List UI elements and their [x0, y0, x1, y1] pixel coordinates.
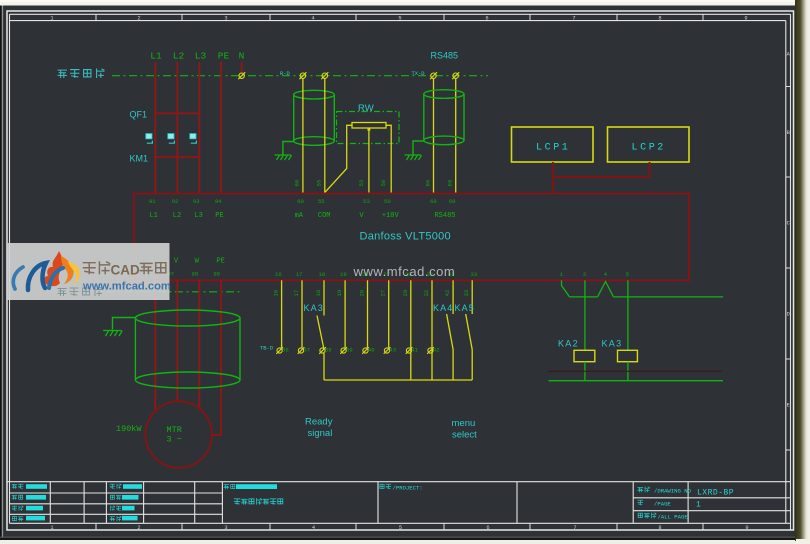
- svg-text:2: 2: [137, 525, 140, 531]
- svg-text:8: 8: [658, 16, 661, 22]
- window edge: left dark column and light line: [0, 6, 2, 541]
- wire numbers at circles: [282, 347, 440, 354]
- svg-text:17: 17: [296, 271, 303, 278]
- svg-text:L1: L1: [150, 51, 162, 62]
- terminal 60 at boundary: [299, 72, 306, 79]
- top ruler ticks: [96, 14, 703, 20]
- relay coil KA2: [574, 350, 595, 361]
- wire motor PE: [212, 280, 221, 435]
- wire ctrl 18 with KA3 contact: [317, 280, 324, 380]
- wire choke shield to ground: [113, 318, 137, 330]
- watermark text 免费CAD数据网: [83, 262, 109, 274]
- wire RS485 A (68): [433, 79, 435, 193]
- svg-text:91: 91: [149, 198, 156, 205]
- svg-text:C: C: [787, 221, 790, 227]
- svg-text:/DRAWING NO: /DRAWING NO: [654, 488, 692, 495]
- svg-text:L2: L2: [173, 51, 185, 62]
- svg-text:55: 55: [318, 198, 325, 205]
- wire L1 phase: [154, 62, 156, 194]
- wire T1 shield to ground: [283, 142, 294, 155]
- svg-text:MTR: MTR: [167, 425, 182, 435]
- svg-text:19: 19: [336, 290, 343, 297]
- svg-text:L1: L1: [149, 212, 157, 220]
- svg-text:www.mfcad.com: www.mfcad.com: [353, 264, 456, 279]
- svg-text:33: 33: [471, 271, 478, 278]
- wire mA signal (60): [302, 79, 304, 193]
- svg-text:CAD: CAD: [111, 263, 140, 278]
- svg-text:6: 6: [485, 16, 488, 22]
- title block: left column row labels (col1): [12, 484, 23, 521]
- svg-text:16: 16: [275, 271, 282, 278]
- title block: project cell label: [380, 484, 391, 489]
- svg-text:+10V: +10V: [382, 212, 400, 220]
- svg-text:40: 40: [368, 347, 375, 354]
- svg-text:16: 16: [273, 290, 280, 297]
- svg-text:signal: signal: [308, 428, 333, 439]
- wire ctrl 17: [301, 280, 303, 348]
- relay coil KA3: [618, 350, 638, 361]
- ground G1: [275, 155, 292, 160]
- drive VLT5000 enclosure: [134, 194, 689, 281]
- svg-text:/PAGE: /PAGE: [654, 500, 671, 507]
- svg-text:5: 5: [399, 525, 402, 531]
- wire device boundary dashed line (lower): [107, 291, 240, 293]
- svg-text:LCP2: LCP2: [632, 143, 666, 154]
- terminal on N at boundary: [238, 72, 245, 79]
- svg-text:69: 69: [449, 198, 456, 205]
- wire ctrl 27: [388, 280, 390, 348]
- svg-text:60: 60: [297, 198, 304, 205]
- wire RW right end to terminal 50: [386, 125, 391, 192]
- svg-text:18: 18: [315, 290, 322, 297]
- svg-text:19: 19: [340, 271, 347, 278]
- svg-text:55: 55: [316, 180, 323, 187]
- wire LCP2 drop: [649, 162, 651, 177]
- svg-text:QF1: QF1: [130, 110, 148, 120]
- svg-text:PE: PE: [215, 212, 223, 220]
- svg-text:select: select: [452, 430, 477, 441]
- potentiometer RW wiper dot: [368, 128, 371, 131]
- svg-text:43: 43: [389, 347, 396, 354]
- wire RS485 B (69): [455, 79, 457, 193]
- terminal 69 at boundary: [452, 72, 459, 79]
- wire relay contact 1 (blade to rail): [562, 280, 570, 297]
- wire terminal 2 to coil KA2: [584, 280, 586, 350]
- svg-text:38: 38: [325, 347, 332, 354]
- svg-text:www.mfcad.com: www.mfcad.com: [82, 281, 171, 293]
- top ruler numbers: [50, 16, 747, 22]
- wire coil KA2 to rail: [584, 362, 586, 381]
- svg-text:2: 2: [583, 271, 586, 278]
- wire ctrl 42 with KA4 contact: [447, 280, 454, 380]
- wire COM (55): [324, 79, 326, 193]
- svg-text:R-D: R-D: [280, 71, 290, 77]
- bottom ruler ticks: [96, 523, 703, 530]
- wire terminal 5 to coil KA3: [627, 280, 629, 350]
- svg-text:menu: menu: [452, 418, 476, 429]
- ground G3: [103, 331, 122, 337]
- wire RW wiper to terminal 53: [368, 131, 370, 193]
- wire ctrl 19: [344, 280, 346, 348]
- svg-text:42: 42: [433, 347, 440, 354]
- terminal 68 at boundary: [430, 72, 437, 79]
- svg-text:33: 33: [463, 290, 470, 297]
- wire motor V: [176, 280, 178, 402]
- svg-text:42: 42: [444, 290, 451, 297]
- wire ctrl 20: [367, 280, 369, 348]
- current transformer T1 (cylinder): [294, 90, 335, 145]
- svg-text:4: 4: [311, 16, 314, 22]
- wire ctrl 33 with KA5 contact: [466, 280, 473, 380]
- svg-text:27: 27: [380, 290, 387, 297]
- title block: second column cyan bars: [122, 484, 142, 520]
- bottom ruler numbers: [50, 525, 748, 531]
- wire motor U: [154, 280, 156, 411]
- svg-text:RW: RW: [358, 103, 374, 114]
- window edge: top cream strip: [0, 0, 799, 6]
- wire LCP bus horizontal: [553, 176, 650, 178]
- svg-text:/ALL PAGE: /ALL PAGE: [658, 514, 689, 521]
- svg-text:/PROJECT:: /PROJECT:: [393, 484, 423, 491]
- svg-text:5: 5: [626, 271, 629, 278]
- signal isolator T2 (cylinder): [424, 90, 464, 145]
- title block: all page row: [638, 513, 656, 518]
- svg-text:N: N: [239, 51, 245, 62]
- svg-text:39: 39: [346, 347, 353, 354]
- breaker QF1 linkage bar: [155, 112, 199, 114]
- contactor KM1 linkage bar: [155, 156, 199, 158]
- svg-text:98: 98: [192, 270, 199, 277]
- watermark logo flame: [44, 251, 79, 286]
- svg-text:L2: L2: [173, 212, 181, 220]
- right ruler letters: [787, 52, 791, 409]
- svg-text:32: 32: [423, 290, 430, 297]
- wire LCP1 drop: [552, 162, 554, 194]
- ground G2: [405, 155, 422, 160]
- svg-text:KA5: KA5: [455, 303, 475, 313]
- svg-text:3 ~: 3 ~: [167, 435, 182, 445]
- svg-text:5: 5: [398, 16, 401, 22]
- svg-text:41: 41: [411, 347, 418, 354]
- boundary label 设备分界 (lower, visible over watermark): [58, 288, 102, 296]
- svg-text:1: 1: [696, 501, 701, 510]
- wire relay rail lower: [549, 380, 724, 382]
- wire relay rail upper: [570, 296, 724, 298]
- svg-text:PE: PE: [216, 258, 224, 266]
- window edge: bottom lines and cream page below: [0, 537, 796, 538]
- svg-text:69: 69: [447, 180, 454, 187]
- svg-text:COM: COM: [318, 212, 331, 220]
- svg-text:3: 3: [224, 525, 227, 531]
- title block: second label column (col4) glyphs: [110, 484, 121, 521]
- rotated wire numbers for control wires: [273, 289, 471, 296]
- svg-text:E: E: [787, 403, 790, 409]
- title block: drawing title (Chinese): [234, 499, 283, 505]
- title block grid lines: [7, 482, 791, 524]
- svg-text:L3: L3: [194, 212, 202, 220]
- svg-text:D: D: [787, 312, 790, 318]
- svg-text:53: 53: [363, 198, 370, 205]
- svg-text:RS485: RS485: [431, 51, 459, 61]
- svg-text:7: 7: [572, 16, 575, 22]
- svg-text:53: 53: [358, 180, 365, 187]
- svg-text:KA4: KA4: [433, 303, 453, 313]
- potentiometer RW dash-dot enclosure: [337, 112, 400, 144]
- svg-text:99: 99: [213, 270, 220, 277]
- svg-text:RS485: RS485: [434, 212, 455, 220]
- wire coil KA3 to rail: [627, 362, 629, 381]
- svg-text:2: 2: [137, 16, 140, 22]
- wire ctrl 29: [410, 280, 412, 380]
- title block: left column cyan bars (col1): [26, 484, 47, 520]
- wire T2 shield to ground: [413, 141, 424, 155]
- boundary label 设备分界 (lower, under watermark): [58, 288, 102, 296]
- svg-text:L3: L3: [195, 51, 207, 62]
- svg-text:TB-D: TB-D: [260, 346, 273, 352]
- svg-text:29: 29: [402, 290, 409, 297]
- wire L2 phase: [176, 62, 178, 194]
- title block: drawing no row: [638, 487, 650, 492]
- svg-text:9: 9: [745, 525, 748, 531]
- svg-text:KA2: KA2: [558, 339, 579, 349]
- svg-text:KA3: KA3: [602, 339, 623, 349]
- right ruler ticks: [786, 87, 791, 451]
- terminal circles row with wire numbers: [276, 347, 434, 354]
- watermark logo blue swoosh: [13, 263, 63, 290]
- wire L3 phase: [198, 62, 200, 194]
- wire RW left end to terminal 55: [325, 125, 352, 192]
- title block: drawing-type cell label and bar: [224, 484, 235, 489]
- motor MTR circle: [146, 401, 212, 467]
- wire relay contact 4 (tent): [598, 282, 614, 297]
- watermark panel (semi-transparent): [7, 243, 170, 300]
- panel LCP2 box: [608, 127, 690, 162]
- potentiometer RW body: [352, 123, 386, 129]
- wire motor W: [198, 280, 200, 408]
- svg-text:37: 37: [303, 347, 310, 354]
- breaker QF1 pole marks (cyan): [146, 134, 197, 144]
- svg-text:LCP1: LCP1: [536, 143, 570, 154]
- wire ctrl 32: [431, 280, 433, 380]
- svg-text:6: 6: [486, 525, 489, 531]
- svg-text:93: 93: [193, 198, 200, 205]
- svg-text:94: 94: [215, 198, 222, 205]
- svg-text:PE: PE: [218, 51, 230, 62]
- svg-text:60: 60: [294, 179, 301, 186]
- faint residual line: [549, 370, 723, 372]
- svg-text:36: 36: [282, 347, 289, 354]
- svg-text:7: 7: [573, 525, 576, 531]
- panel LCP1 box: [512, 127, 594, 162]
- svg-text:190kW: 190kW: [116, 424, 142, 434]
- terminal 55 at boundary: [321, 72, 328, 79]
- svg-text:1: 1: [50, 16, 53, 22]
- svg-text:3: 3: [224, 16, 227, 22]
- svg-text:4: 4: [312, 525, 315, 531]
- svg-text:18: 18: [319, 271, 326, 278]
- svg-text:50: 50: [384, 198, 391, 205]
- svg-text:68: 68: [425, 180, 432, 187]
- wire device boundary dashed line (top): [112, 75, 488, 77]
- svg-text:mA: mA: [295, 212, 304, 220]
- svg-text:Danfoss VLT5000: Danfoss VLT5000: [360, 231, 451, 243]
- title block: page row: [638, 500, 643, 505]
- svg-text:KM1: KM1: [130, 154, 149, 164]
- svg-text:8: 8: [658, 525, 661, 531]
- svg-text:LXRD-BP: LXRD-BP: [697, 488, 734, 497]
- svg-text:20: 20: [359, 289, 366, 296]
- wire control common rail: [324, 379, 472, 381]
- svg-text:KA3: KA3: [304, 303, 324, 313]
- svg-text:9: 9: [744, 16, 747, 22]
- boundary label 设备分界 (top): [58, 69, 104, 77]
- svg-text:17: 17: [293, 290, 300, 297]
- output choke L (cylinder): [135, 310, 240, 388]
- svg-text:1: 1: [50, 525, 53, 531]
- wire ctrl 16: [281, 280, 283, 348]
- window edge: right olive shadow gradient: [795, 0, 810, 541]
- svg-text:Ready: Ready: [305, 417, 333, 428]
- wire N stub: [241, 62, 243, 73]
- svg-text:50: 50: [380, 179, 387, 186]
- wire PE conductor: [220, 62, 222, 194]
- svg-text:68: 68: [430, 198, 437, 205]
- svg-text:92: 92: [172, 198, 179, 205]
- svg-text:TX-D: TX-D: [412, 71, 425, 77]
